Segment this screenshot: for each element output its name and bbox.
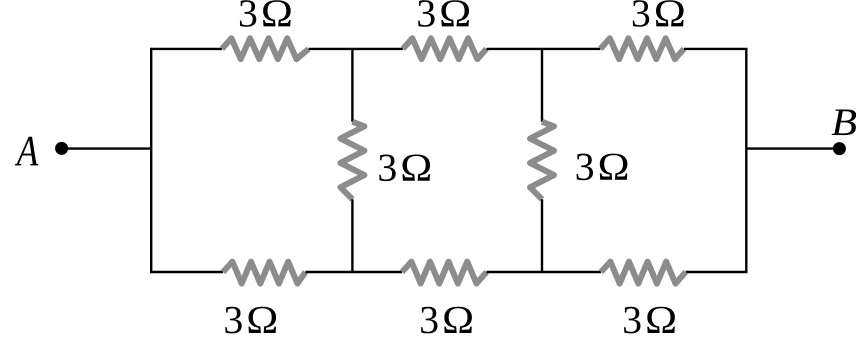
label B xyxy=(832,110,857,136)
resistor R2 3&#937; top-middle xyxy=(403,38,487,59)
label R4 value 3&#937; xyxy=(379,155,430,182)
wire left wall with top-left and bottom-left corner stubs xyxy=(151,49,223,272)
label R2 value 3&#937; xyxy=(418,0,469,27)
wire top rail segment between R1 and R2 xyxy=(309,48,403,50)
resistor R5 3&#937; vertical right shunt xyxy=(530,122,554,200)
label R8 value 3&#937; xyxy=(624,307,675,334)
label R1 value 3&#937; xyxy=(240,0,291,27)
wire bottom rail segment between R6 and R7 xyxy=(306,271,403,273)
wire right wall with top-right and bottom-right corner stubs xyxy=(684,49,746,272)
label A xyxy=(15,137,39,166)
label R7 value 3&#937; xyxy=(421,307,472,334)
terminal dot A xyxy=(55,142,68,155)
resistor R8 3&#937; bottom-right xyxy=(601,262,686,284)
label R3 value 3&#937; xyxy=(633,0,684,27)
resistor R1 3&#937; top-left xyxy=(222,38,309,59)
wire lead from right wall to terminal B xyxy=(746,147,839,149)
wire vertical stub from top rail junction down to resistor R4 xyxy=(351,49,353,122)
wire top rail segment between R2 and R3 xyxy=(486,48,600,50)
label R5 value 3&#937; xyxy=(577,154,628,181)
label R6 value 3&#937; xyxy=(225,307,276,334)
wire bottom rail segment between R7 and R8 xyxy=(487,271,602,273)
resistor R7 3&#937; bottom-middle xyxy=(402,262,487,284)
wire vertical stub from resistor R5 down to bottom rail xyxy=(541,199,543,272)
wire lead from terminal A to left wall xyxy=(62,147,152,149)
wire vertical stub from resistor R4 down to bottom rail xyxy=(351,199,353,272)
resistor R6 3&#937; bottom-left xyxy=(223,262,306,284)
resistor R3 3&#937; top-right xyxy=(600,38,684,59)
resistor R4 3&#937; vertical left shunt xyxy=(340,122,364,200)
terminal dot B xyxy=(833,142,846,155)
wire vertical stub from top rail junction down to resistor R5 xyxy=(541,49,543,122)
